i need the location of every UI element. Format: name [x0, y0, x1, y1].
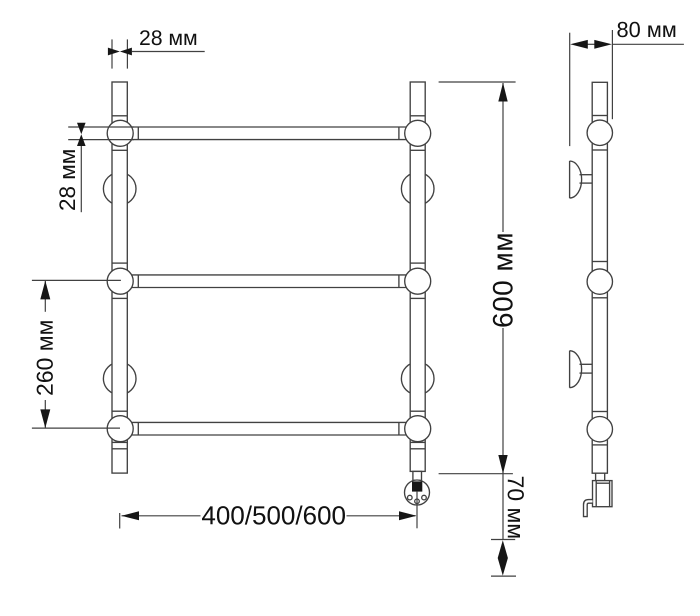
plug black square: [412, 481, 422, 491]
arrowhead 600mm up: [498, 83, 507, 102]
side bracket upper: stem: [580, 174, 593, 176]
dim 600mm: dimension line segments: [502, 83, 504, 232]
dim 28mm top: extension lines: [111, 39, 113, 68]
dim 80mm side: extension lines: [569, 33, 571, 146]
arrowheads 28mm left (hourglass): [77, 123, 86, 135]
right tube seam lines: [410, 116, 425, 449]
side sphere middle: [587, 269, 612, 294]
sphere joint mid-left: [107, 268, 133, 294]
bracket bump right lower: [401, 362, 434, 395]
side electric box: [593, 481, 613, 507]
sphere joint mid-right: [405, 268, 431, 294]
plug pins: [408, 495, 427, 503]
bracket bump left upper: [103, 172, 136, 205]
label 80 mm: [617, 22, 675, 37]
label 28 mm left (rotated): [59, 150, 75, 210]
bracket bump right upper: [401, 172, 434, 205]
electric plug circle (front view): [405, 480, 430, 505]
dim 400/500/600: right extension through plug: [416, 492, 418, 529]
dim 260mm: dimension line segments: [44, 281, 46, 312]
bar B2 (middle horizontal tube): [120, 275, 418, 288]
arrowhead 260mm up: [40, 281, 50, 300]
side vertical tube: [592, 82, 607, 473]
bar collar seams at spheres: [138, 127, 399, 435]
side bracket upper: cap: [570, 161, 582, 198]
arrowhead 80mm left: [570, 40, 588, 49]
label 70 mm (rotated): [508, 477, 524, 538]
arrowheads 28mm top (hourglass): [108, 48, 120, 56]
label 260 mm (rotated): [37, 321, 53, 395]
label 600 mm (rotated): [493, 234, 513, 326]
label 28 mm top: [140, 30, 196, 45]
dim 80mm side: dimension line: [587, 43, 595, 45]
arrowhead 400 right: [399, 511, 417, 520]
label 400/500/600: [202, 506, 345, 525]
arrowhead diamond 70mm: [498, 540, 508, 575]
arrowhead 600mm down: [498, 455, 507, 474]
left tube seam lines: [112, 116, 127, 449]
side sphere bottom: [587, 417, 612, 442]
side tube seams: [592, 116, 607, 445]
sphere joint top-right: [405, 120, 431, 146]
dim 70mm: lower extension lines: [491, 539, 515, 541]
sphere joint bottom-right: [405, 416, 431, 442]
side cable hook: [584, 500, 593, 517]
arrowhead 400 left: [122, 511, 140, 520]
arrowhead 80mm right: [594, 40, 612, 49]
arrowhead 260mm down: [40, 409, 50, 428]
side bracket lower: stem: [580, 363, 593, 365]
dim 600mm: extension lines: [439, 81, 516, 83]
bar B1 (top horizontal tube): [120, 127, 418, 140]
bar B3 (bottom horizontal tube): [120, 422, 418, 435]
dim 28mm left: extension lines over sphere: [68, 126, 134, 128]
side electric neck: [596, 473, 605, 480]
side bracket lower: cap: [570, 351, 582, 388]
sphere joint top-left: [107, 120, 133, 146]
dim 260mm: extension lines: [32, 279, 121, 281]
left vertical tube: [112, 82, 127, 473]
right vertical tube: [410, 82, 425, 471]
dim 28mm left: tail line: [80, 146, 82, 212]
side sphere top: [587, 120, 612, 145]
bracket bump left lower: [103, 362, 136, 395]
dim 28mm top: dimension line: [132, 51, 205, 53]
electric cartridge neck (front view): [413, 471, 422, 480]
dim 400/500/600: tick and line: [119, 513, 121, 529]
sphere joint bottom-left: [107, 416, 133, 442]
